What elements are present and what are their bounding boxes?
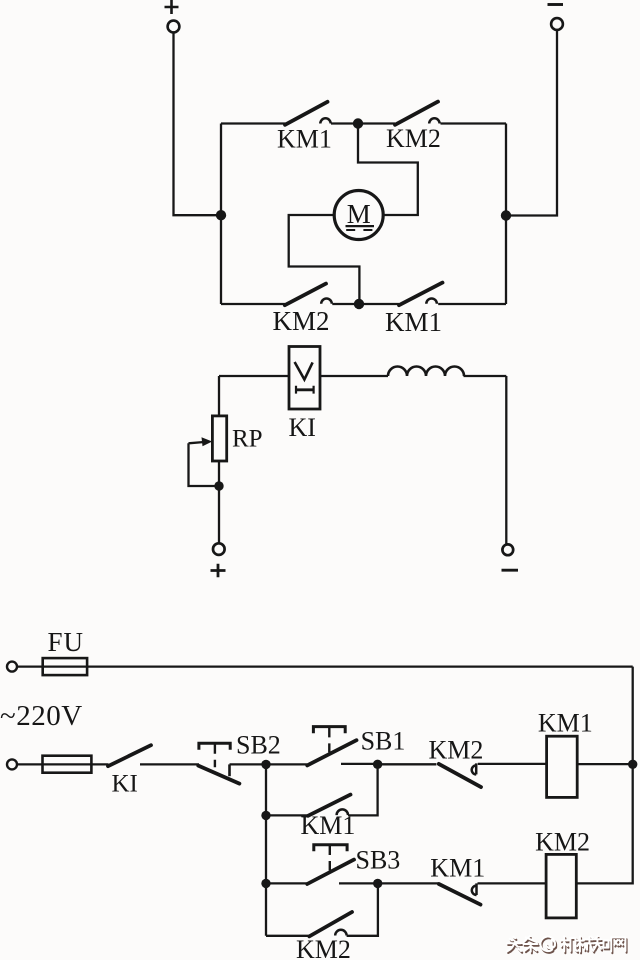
- wire SB1 to node B: [341, 763, 378, 765]
- wire node C to KM1 NC contact: [378, 882, 438, 884]
- motor M (DC motor): [334, 191, 383, 240]
- contactor coil KM1: [547, 736, 578, 797]
- push button SB2 (NC, stop): [198, 743, 239, 783]
- wire middle rail left segment: [219, 375, 289, 377]
- wire SB2 to node A: [230, 763, 267, 765]
- svg-text:KM2: KM2: [535, 828, 590, 857]
- wiper arm of RP with arrow: [189, 437, 220, 486]
- svg-text:KI: KI: [112, 770, 138, 797]
- node C (after SB3): [373, 879, 382, 888]
- relay coil KI (overcurrent relay box): [289, 347, 320, 410]
- svg-text:KM2: KM2: [386, 124, 441, 153]
- wire middle right vertical: [505, 376, 507, 544]
- wire top rail segments: [221, 122, 506, 124]
- node bottom junction at motor branch: [354, 299, 364, 309]
- wire right rail down to KM2 coil: [576, 667, 632, 884]
- terminal - (middle bottom right): [502, 544, 519, 570]
- svg-text:KM1: KM1: [430, 853, 485, 882]
- inductor L (4 humps): [388, 367, 464, 377]
- svg-text:FU: FU: [48, 627, 85, 657]
- svg-text:KI: KI: [289, 413, 316, 442]
- contactor coil KM2: [546, 854, 576, 918]
- wire bridge right vertical: [505, 124, 507, 305]
- svg-text:KM1: KM1: [301, 811, 356, 840]
- wire row4 right and up to node C: [347, 883, 378, 935]
- terminal + (top left): [165, 0, 180, 32]
- interlock contact KM1 (NC): [439, 883, 481, 904]
- contactor contact KM2 (bottom, NO): [285, 284, 332, 306]
- self-holding contact KM1 (NO, row2): [308, 795, 351, 816]
- rheostat RP (box): [212, 416, 226, 461]
- fuse FU (lower): [43, 756, 92, 773]
- node A (below SB2): [261, 760, 270, 769]
- wire middle rail right of inductor: [464, 375, 507, 377]
- node A3 (row3): [261, 879, 270, 888]
- terminal + (middle bottom left): [211, 543, 226, 577]
- wire bridge left vertical: [220, 124, 222, 305]
- svg-text:KM1: KM1: [385, 307, 442, 337]
- wire from - terminal down to right node: [506, 30, 557, 216]
- wire from + terminal down to left node: [174, 32, 222, 215]
- wire from top junction to motor right terminal: [358, 124, 418, 216]
- terminal - (top right): [548, 5, 564, 30]
- svg-text:KM2: KM2: [296, 935, 351, 960]
- node B (after SB1): [373, 760, 382, 769]
- wire row2 right and up to node B: [348, 764, 378, 815]
- wire KM1 NC to KM2 coil: [478, 882, 547, 884]
- wire middle rail between KI and inductor: [320, 375, 388, 377]
- push button SB3 (NO, start rev): [307, 845, 354, 884]
- self-holding contact KM2 (NO, row4): [309, 912, 352, 936]
- svg-text:SB3: SB3: [356, 846, 401, 875]
- node RP wiper junction: [214, 481, 223, 490]
- contactor contact KM1 (top, NO): [285, 102, 331, 125]
- svg-text:KM2: KM2: [273, 306, 330, 336]
- wire node B to KM2 NC contact: [378, 763, 437, 765]
- wire top supply rail: [17, 665, 633, 667]
- terminal L2 (row1 left): [7, 759, 17, 769]
- wire from motor left terminal to bottom junction: [289, 215, 360, 304]
- wire row1 left: [17, 763, 109, 765]
- wire node A to SB1: [266, 763, 307, 765]
- wire KM1 coil to right rail: [577, 763, 633, 765]
- terminal L1 (top rail left): [7, 662, 17, 672]
- relay contact KI (NO): [108, 745, 151, 766]
- wire from rail down to RP: [218, 376, 220, 416]
- node left (junction dot): [216, 210, 226, 220]
- wire bottom rail segments: [221, 303, 506, 305]
- svg-text:M: M: [347, 199, 371, 229]
- interlock contact KM2 (NC): [439, 763, 481, 787]
- svg-text:KM1: KM1: [277, 125, 332, 154]
- svg-text:KM2: KM2: [429, 736, 484, 765]
- push button SB1 (NO, start fwd): [307, 727, 356, 766]
- svg-text:SB2: SB2: [236, 731, 281, 760]
- fuse FU (upper): [43, 658, 87, 675]
- node right (junction dot): [501, 210, 511, 220]
- wire node A down left branch: [265, 764, 267, 935]
- wire row2 left: [266, 814, 308, 816]
- svg-text:RP: RP: [232, 426, 263, 453]
- wire KI to SB2: [140, 763, 199, 765]
- svg-text:KM1: KM1: [538, 708, 593, 737]
- wire KM2 NC to KM1 coil: [478, 763, 547, 765]
- svg-text:SB1: SB1: [361, 727, 406, 756]
- wire SB3 to node C: [339, 882, 378, 884]
- svg-text:~220V: ~220V: [0, 700, 83, 732]
- node top junction at motor branch: [353, 118, 363, 128]
- contactor contact KM2 (top, NO): [395, 102, 440, 125]
- node at KM1 coil right: [628, 760, 637, 769]
- wire RP bottom to + terminal: [218, 461, 220, 544]
- wire row3 left: [266, 882, 307, 884]
- node A2 (row2): [261, 811, 270, 820]
- wire row4 left vertical and bottom: [266, 935, 309, 937]
- contactor contact KM1 (bottom, NO): [399, 283, 443, 306]
